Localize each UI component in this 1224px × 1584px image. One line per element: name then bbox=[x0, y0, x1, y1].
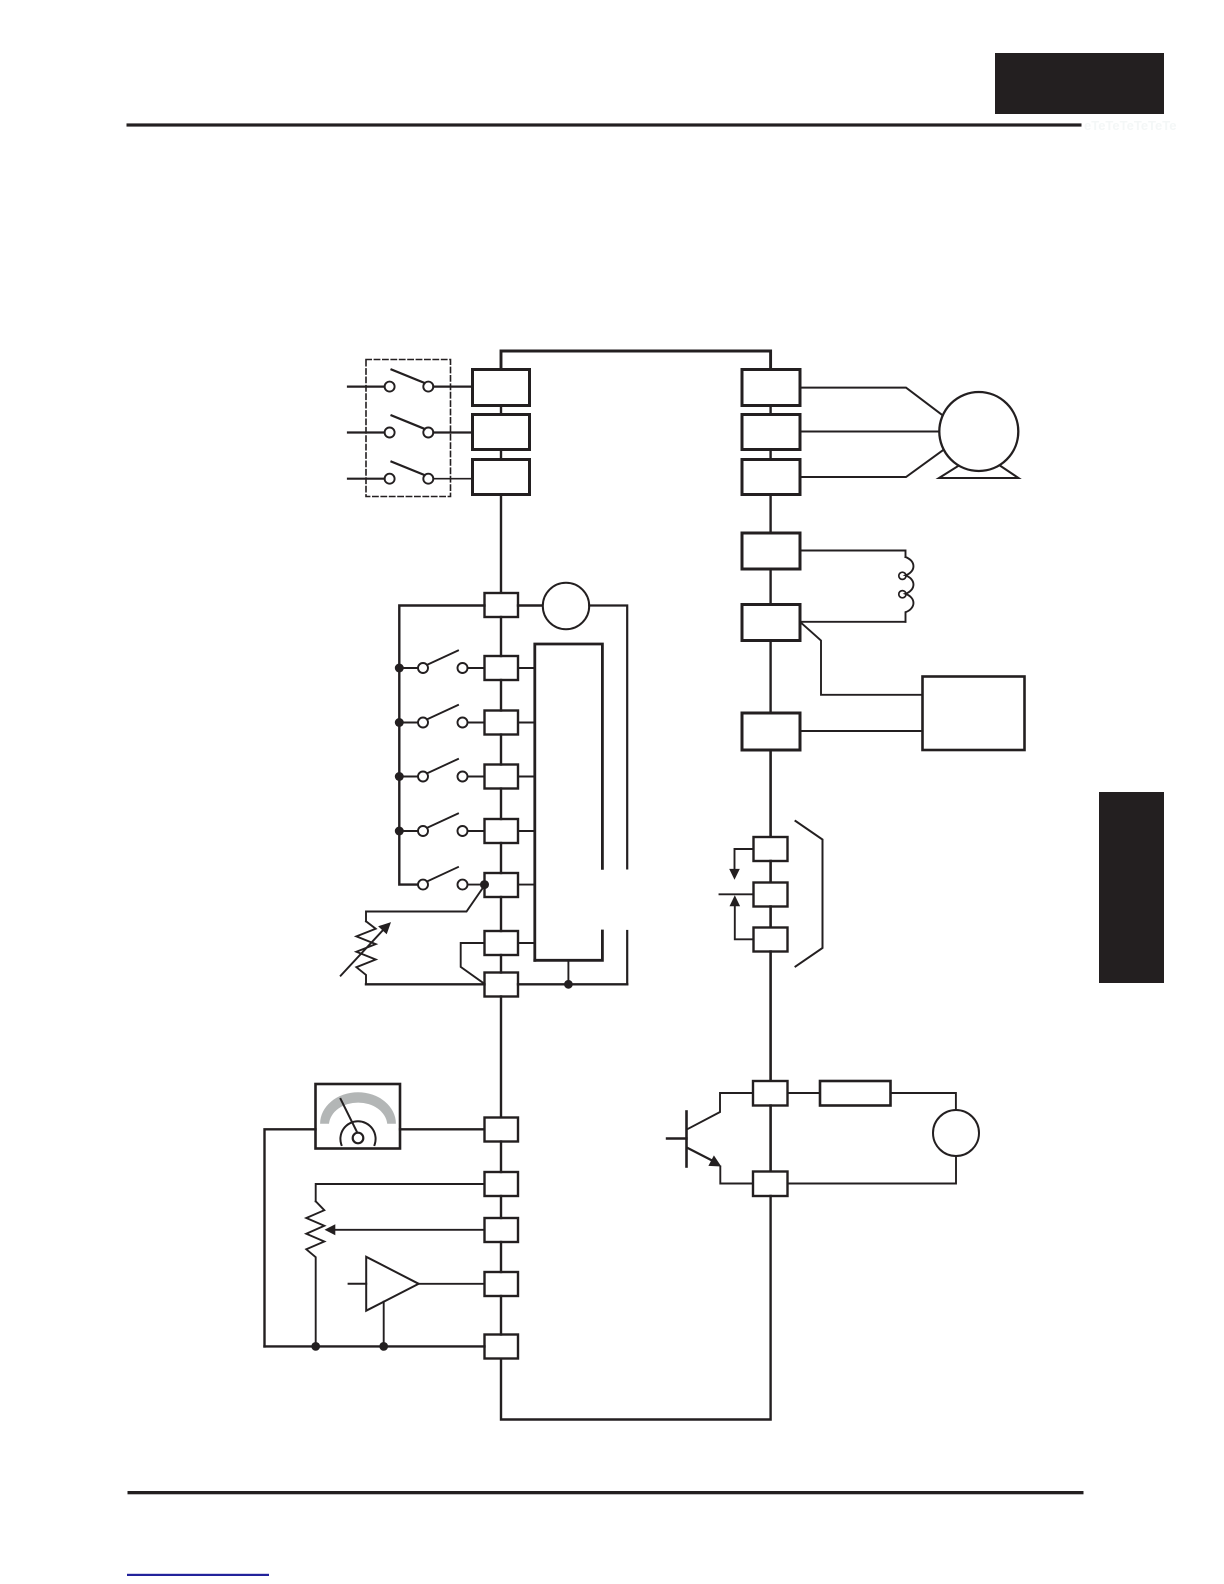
pot1 feed wire bbox=[366, 886, 485, 922]
wire meter left loop bbox=[265, 1129, 316, 1346]
footer rule bbox=[128, 1491, 1084, 1494]
terminal box PD bbox=[742, 533, 800, 569]
thermistor return wire lower bbox=[626, 931, 628, 984]
bus T-L1 bbox=[500, 495, 502, 594]
bus U-V bbox=[769, 406, 771, 415]
wire in4-logic bbox=[518, 830, 535, 832]
relay common line bbox=[720, 893, 754, 895]
wire V to motor bbox=[800, 431, 940, 433]
analog bottom bus bbox=[265, 1345, 485, 1347]
wire in2-logic bbox=[518, 722, 535, 724]
relay contact box AL1 bbox=[754, 837, 788, 861]
wire opamp out bbox=[419, 1283, 485, 1285]
wire meter-FM bbox=[400, 1128, 485, 1130]
terminal box in5 bbox=[485, 873, 519, 897]
wire L1 to thermistor bbox=[518, 604, 543, 606]
bus RB-relay bbox=[769, 750, 772, 837]
bus W-PD bbox=[769, 495, 771, 534]
breaker dashed box bbox=[366, 360, 451, 497]
relay brace bbox=[796, 821, 823, 967]
bus relay-output bbox=[769, 952, 772, 1082]
terminal box R bbox=[473, 370, 530, 406]
braking unit wire from plus bbox=[800, 622, 923, 695]
braking resistor unit box bbox=[923, 677, 1025, 751]
bus in3-in4 bbox=[500, 789, 502, 820]
wire pole1 to R bbox=[433, 386, 472, 388]
load resistor box bbox=[820, 1081, 891, 1106]
input switch 4 bbox=[395, 814, 485, 837]
chapter tab block bbox=[995, 53, 1164, 114]
junction dot pot2 bbox=[311, 1342, 320, 1351]
terminal box L2 bbox=[485, 973, 519, 997]
bus in2-in3 bbox=[500, 735, 502, 765]
wire in3-logic bbox=[518, 776, 535, 778]
terminal box Hb bbox=[485, 1172, 519, 1196]
terminal box L1 bbox=[485, 593, 519, 617]
wire source to CM2 bbox=[788, 1156, 957, 1184]
bus plus-RB bbox=[769, 641, 771, 714]
terminal box in1 bbox=[485, 656, 519, 680]
dc choke top lead bbox=[800, 551, 906, 558]
breaker pole 3 bbox=[348, 462, 433, 484]
pot2 wiper arrow bbox=[325, 1224, 485, 1235]
input switch 1 bbox=[395, 651, 485, 674]
wire W to motor bbox=[800, 451, 943, 478]
wire in1-logic bbox=[518, 667, 535, 669]
pot1 zigzag bbox=[356, 921, 375, 984]
bus PD-plus bbox=[769, 569, 771, 605]
footer link underline bbox=[127, 1574, 269, 1576]
wire pole3 to T bbox=[433, 478, 472, 480]
bus L1-in1 bbox=[500, 617, 502, 656]
wire Hb to pot2 bbox=[316, 1184, 485, 1201]
terminal box V bbox=[742, 415, 800, 450]
relay bus 2 bbox=[769, 907, 772, 928]
relay arrow down bbox=[729, 849, 753, 880]
terminal box FM bbox=[485, 1118, 519, 1142]
terminal box plus bbox=[742, 605, 800, 641]
terminal box in4 bbox=[485, 819, 519, 843]
terminal box OI bbox=[485, 1272, 519, 1296]
wire pole2 to S bbox=[433, 431, 472, 433]
bus FM-Hb bbox=[500, 1142, 502, 1173]
relay bus 1 bbox=[769, 861, 772, 883]
terminal box T bbox=[473, 460, 530, 495]
faint header text bbox=[1084, 118, 1176, 133]
side tab block bbox=[1099, 792, 1164, 983]
power source circle bbox=[933, 1110, 979, 1156]
wire 11 to load resistor bbox=[788, 1092, 821, 1094]
logic block stub bbox=[567, 960, 569, 984]
input switch 5 bbox=[418, 867, 485, 890]
left feeder wire bbox=[399, 606, 484, 885]
terminal box H bbox=[485, 931, 519, 955]
bus R-S bbox=[500, 406, 502, 415]
input switch 3 bbox=[395, 759, 485, 782]
junction dot logic stub bbox=[564, 980, 573, 989]
motor pedestal bbox=[939, 466, 1019, 478]
wire resistor to source bbox=[891, 1093, 956, 1110]
bus in4-in5 bbox=[500, 843, 502, 873]
braking resistor wire bbox=[800, 730, 923, 732]
wire U to motor bbox=[800, 388, 942, 415]
input switch 2 bbox=[395, 705, 485, 728]
bus Ob-OI bbox=[500, 1242, 502, 1272]
opamp ground stub bbox=[383, 1302, 385, 1347]
thermistor circle bbox=[543, 583, 589, 629]
terminal box W bbox=[742, 460, 800, 495]
bus S-T bbox=[500, 450, 502, 460]
bus in5-H bbox=[500, 897, 502, 931]
terminal box in3 bbox=[485, 765, 519, 789]
terminal box U bbox=[742, 370, 800, 406]
breaker pole 2 bbox=[348, 415, 433, 437]
terminal box RB bbox=[742, 713, 800, 750]
relay arrow up bbox=[730, 895, 754, 939]
analog bus left bbox=[366, 983, 485, 985]
terminal box S bbox=[473, 415, 530, 450]
meter bbox=[316, 1084, 401, 1149]
dc choke coil bbox=[899, 557, 914, 622]
terminal box 11 bbox=[753, 1081, 788, 1106]
pot2 zigzag bbox=[306, 1201, 324, 1346]
bus in1-in2 bbox=[500, 680, 502, 711]
wire H-logic bbox=[518, 942, 535, 944]
wire H bend bbox=[461, 943, 485, 984]
junction dot at in5 bbox=[480, 880, 489, 889]
top bus wire bbox=[501, 351, 771, 370]
bus OI-Lb bbox=[500, 1296, 502, 1335]
bottom U wire bbox=[501, 1196, 771, 1420]
motor M bbox=[939, 392, 1018, 471]
analog bus right bbox=[518, 983, 627, 985]
relay contact box AL2 bbox=[754, 928, 788, 952]
pot1 arrow bbox=[341, 922, 391, 976]
terminal box Ob bbox=[485, 1218, 519, 1242]
bus L2-FM bbox=[500, 997, 502, 1118]
thermistor return wire upper bbox=[589, 606, 627, 869]
junction dot opamp bbox=[379, 1342, 388, 1351]
breaker pole 1 bbox=[348, 370, 433, 392]
bus V-W bbox=[769, 450, 771, 460]
bus Hb-Ob bbox=[500, 1196, 502, 1218]
terminal box Lb bbox=[485, 1335, 519, 1359]
header rule bbox=[127, 123, 1082, 126]
terminal box in2 bbox=[485, 711, 519, 735]
dc choke bottom lead bbox=[800, 621, 906, 623]
bus 11-CM2 bbox=[769, 1106, 772, 1172]
relay contact box AL0 bbox=[754, 883, 788, 907]
logic block bbox=[535, 644, 603, 960]
op-amp bbox=[349, 1257, 419, 1311]
bus H-L2 bbox=[500, 955, 502, 973]
terminal box CM2 bbox=[753, 1172, 788, 1197]
svg-text:eTeTeTeTeTeTe: eTeTeTeTeTeTe bbox=[1084, 118, 1176, 133]
wire in5-logic bbox=[518, 884, 535, 886]
open collector transistor bbox=[667, 1093, 753, 1184]
